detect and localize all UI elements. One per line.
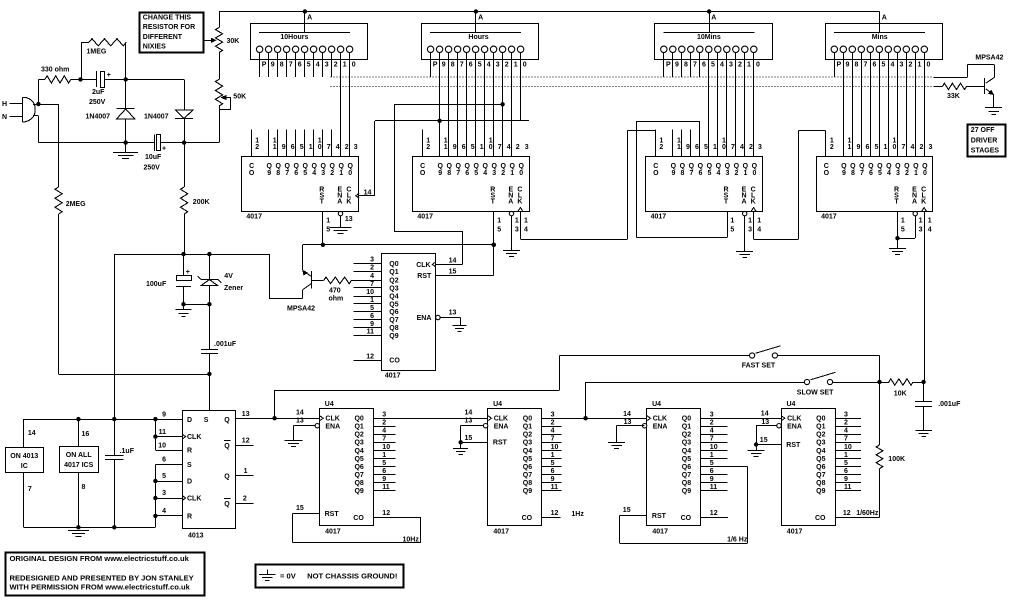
- svg-text:N: N: [2, 114, 7, 121]
- svg-text:8: 8: [280, 61, 284, 68]
- wire from plug upper pin to node: [33, 104, 59, 106]
- ground (Mins RST/ENA): [897, 238, 899, 248]
- svg-text:Q3: Q3: [682, 440, 691, 447]
- Hours pin 7: [454, 46, 460, 52]
- svg-text:13: 13: [465, 418, 473, 425]
- svg-text:1: 1: [747, 61, 751, 68]
- 4017 Mins RST pin 15 wire: [897, 211, 899, 238]
- svg-text:14: 14: [623, 411, 631, 418]
- svg-text:K: K: [346, 198, 351, 205]
- svg-text:CLK: CLK: [653, 416, 667, 423]
- svg-text:5: 5: [710, 460, 714, 467]
- resistor 10K: [833, 382, 889, 384]
- svg-text:6: 6: [698, 170, 702, 177]
- svg-text:Q7: Q7: [523, 472, 532, 479]
- svg-text:5: 5: [730, 226, 734, 233]
- svg-text:4017: 4017: [246, 214, 262, 221]
- svg-text:Q8: Q8: [523, 480, 532, 487]
- svg-text:U4: U4: [493, 401, 502, 408]
- Mins pin 9: [840, 46, 846, 52]
- svg-text:5: 5: [382, 460, 386, 467]
- svg-text:2: 2: [905, 170, 909, 177]
- arrow from box to 30K: [203, 40, 211, 42]
- switch SLOW SET: [804, 379, 809, 384]
- svg-text:7: 7: [710, 436, 714, 443]
- svg-text:4013: 4013: [188, 532, 204, 539]
- svg-text:1N4007: 1N4007: [86, 114, 111, 121]
- svg-text:5: 5: [474, 170, 478, 177]
- counter 4017 (Hours) box: [413, 157, 530, 212]
- svg-text:CO: CO: [522, 515, 533, 522]
- svg-text:4: 4: [336, 144, 340, 151]
- svg-text:Q3: Q3: [816, 440, 825, 447]
- svg-text:9: 9: [382, 476, 386, 483]
- resistor 2MEG: [58, 104, 60, 187]
- svg-text:5: 5: [711, 61, 715, 68]
- svg-text:4: 4: [740, 144, 744, 151]
- 4013 Qbar pin 12 stub: [235, 445, 253, 447]
- svg-text:CO: CO: [681, 515, 692, 522]
- svg-text:8: 8: [447, 170, 451, 177]
- svg-text:10: 10: [382, 444, 390, 451]
- counter 4017 (mains divider) box: [382, 254, 436, 371]
- svg-text:5: 5: [844, 460, 848, 467]
- svg-text:5: 5: [878, 170, 882, 177]
- svg-text:3: 3: [725, 170, 729, 177]
- svg-text:Q4: Q4: [682, 448, 691, 455]
- svg-text:4017: 4017: [652, 529, 668, 536]
- 10Mins pin 7: [688, 46, 694, 52]
- svg-text:Q1: Q1: [682, 424, 691, 431]
- svg-text:6: 6: [710, 468, 714, 475]
- svg-text:0: 0: [348, 170, 352, 177]
- svg-text:10Mins: 10Mins: [697, 34, 721, 41]
- 4017 Hours CO pin 12 stub: [422, 130, 424, 157]
- svg-text:4: 4: [710, 428, 714, 435]
- svg-text:33K: 33K: [947, 93, 960, 100]
- resistor 1MEG: [81, 42, 83, 79]
- svg-text:RST: RST: [325, 511, 340, 518]
- 4017 10Hours Q2 stub: [331, 130, 333, 157]
- svg-text:1: 1: [480, 144, 484, 151]
- svg-text:ON 4013: ON 4013: [10, 453, 38, 460]
- nixie connector Hours box: [422, 24, 539, 60]
- anode wire A of 10Mins: [709, 12, 711, 33]
- svg-text:O: O: [824, 170, 830, 177]
- svg-text:Q3: Q3: [389, 285, 398, 292]
- Mins pin 6: [867, 46, 873, 52]
- svg-text:O: O: [653, 170, 659, 177]
- 4017 10Hours CLK pin 14 wedge: [356, 193, 359, 198]
- ground (.001uF): [923, 407, 925, 431]
- box design credits: [6, 553, 205, 596]
- cathode bus dotted line lower: [331, 85, 934, 87]
- Mins pin 5: [876, 46, 882, 52]
- 10Hours pin 8: [274, 46, 280, 52]
- svg-text:CLK: CLK: [187, 434, 201, 441]
- svg-text:9: 9: [271, 61, 275, 68]
- svg-text:9: 9: [551, 476, 555, 483]
- Mins pin 7: [858, 46, 864, 52]
- svg-text:15: 15: [296, 505, 304, 512]
- svg-text:Q9: Q9: [816, 488, 825, 495]
- svg-text:Q4: Q4: [389, 293, 398, 300]
- ground symbol in note: [267, 569, 269, 574]
- svg-text:4017 ICS: 4017 ICS: [64, 462, 94, 469]
- svg-text:P: P: [262, 61, 267, 68]
- U4#2 CO stub (1Hz): [542, 517, 561, 519]
- svg-text:A: A: [478, 15, 483, 22]
- central 4017 Q8 pin 9 wire: [354, 327, 382, 329]
- svg-text:4017: 4017: [821, 214, 837, 221]
- svg-text:0: 0: [893, 144, 897, 151]
- svg-text:Q9: Q9: [389, 333, 398, 340]
- central 4017 Q3 pin 7 wire: [354, 287, 382, 289]
- svg-text:T: T: [894, 198, 899, 205]
- 4017 Mins CLK pin 14 wedge and wire down to divider chain: [922, 208, 927, 212]
- svg-text:ORIGINAL DESIGN FROM www.elect: ORIGINAL DESIGN FROM www.electricstuff.c…: [10, 554, 190, 563]
- svg-text:7: 7: [28, 486, 32, 493]
- svg-text:11: 11: [844, 484, 852, 491]
- svg-text:10uF: 10uF: [145, 154, 162, 161]
- svg-text:1: 1: [343, 61, 347, 68]
- svg-text:0: 0: [923, 170, 927, 177]
- svg-text:RST: RST: [493, 440, 508, 447]
- svg-text:6: 6: [462, 144, 466, 151]
- U4#4 CO wire to 100K (1/60Hz): [835, 517, 879, 519]
- svg-text:4: 4: [716, 170, 720, 177]
- svg-text:CLK: CLK: [494, 416, 508, 423]
- svg-text:7: 7: [689, 170, 693, 177]
- 4017 Hours Q9 stub from clock wire: [439, 121, 441, 157]
- svg-text:A: A: [741, 198, 746, 205]
- central 4017 CO pin 12 stub: [354, 360, 382, 362]
- svg-text:Q0: Q0: [682, 416, 691, 423]
- svg-text:9: 9: [846, 61, 850, 68]
- svg-text:2: 2: [551, 420, 555, 427]
- switch FAST SET: [750, 353, 755, 358]
- 10Mins pin 2: [733, 46, 739, 52]
- central 4017 Q7 pin 6 wire: [354, 319, 382, 321]
- U4#1 Q0 wire to U4#2 CLK: [374, 418, 488, 420]
- svg-text:Zener: Zener: [224, 285, 243, 292]
- wire zener node rail: [114, 254, 269, 256]
- svg-text:6: 6: [866, 144, 870, 151]
- 4017 10Hours Q6 stub: [295, 130, 297, 157]
- U4#1 ENA to ground: [294, 425, 316, 427]
- svg-text:8: 8: [680, 170, 684, 177]
- 4017 Hours CLK pin 14 wedge and cascade wire from 10Mins CO: [518, 208, 523, 212]
- 10Hours pin 4: [310, 46, 316, 52]
- svg-text:5: 5: [478, 61, 482, 68]
- 4017 Hours ENA pin 13 bubble+ground: [509, 211, 513, 215]
- svg-text:3: 3: [729, 61, 733, 68]
- svg-text:Q2: Q2: [816, 432, 825, 439]
- svg-text:Q: Q: [224, 501, 230, 508]
- svg-text:4: 4: [757, 226, 761, 233]
- nixie connector 10Hours box: [251, 24, 368, 60]
- svg-text:12: 12: [843, 510, 851, 517]
- svg-text:2MEG: 2MEG: [66, 201, 86, 208]
- 4013 Qbar pin 2 stub: [235, 503, 253, 505]
- box 27 OFF DRIVER STAGES: [968, 125, 1006, 157]
- svg-text:14: 14: [761, 411, 769, 418]
- 10Hours pin 6: [292, 46, 298, 52]
- svg-text:27 OFF: 27 OFF: [971, 127, 995, 134]
- svg-text:CLK: CLK: [187, 496, 201, 503]
- svg-text:0: 0: [927, 61, 931, 68]
- counter 4017 (10Mins) box: [646, 157, 763, 212]
- svg-text:1: 1: [757, 218, 761, 225]
- capacitor 10uF 250V: [154, 135, 156, 151]
- 10Mins pin 8: [679, 46, 685, 52]
- svg-text:5: 5: [307, 61, 311, 68]
- U4#1 Q stubs: [374, 426, 396, 428]
- svg-text:4: 4: [162, 508, 166, 515]
- svg-text:3: 3: [900, 61, 904, 68]
- svg-text:2: 2: [334, 61, 338, 68]
- svg-text:4: 4: [887, 170, 891, 177]
- svg-text:9: 9: [453, 144, 457, 151]
- svg-text:3: 3: [748, 226, 752, 233]
- diode 1N4007 (left): [125, 79, 127, 109]
- svg-text:2: 2: [710, 420, 714, 427]
- svg-text:Q: Q: [224, 417, 230, 424]
- svg-text:1: 1: [524, 218, 528, 225]
- svg-text:100uF: 100uF: [146, 281, 167, 288]
- svg-text:Q6: Q6: [816, 464, 825, 471]
- svg-text:Q: Q: [224, 443, 230, 450]
- svg-text:14: 14: [465, 410, 473, 417]
- svg-text:9: 9: [710, 476, 714, 483]
- svg-text:8: 8: [684, 61, 688, 68]
- svg-text:A: A: [882, 15, 887, 22]
- svg-text:14: 14: [296, 410, 304, 417]
- svg-text:3: 3: [929, 144, 933, 151]
- svg-text:2: 2: [382, 420, 386, 427]
- 10Mins pin 9: [670, 46, 676, 52]
- svg-text:+: +: [162, 146, 166, 153]
- 10Hours pin P: [256, 46, 262, 52]
- logic 0V rail (bottom): [24, 527, 155, 529]
- svg-text:7: 7: [327, 144, 331, 151]
- svg-text:12: 12: [366, 353, 374, 360]
- svg-text:Q9: Q9: [523, 488, 532, 495]
- U4#4 Q stubs: [835, 418, 861, 420]
- svg-text:Q1: Q1: [389, 269, 398, 276]
- svg-text:5: 5: [882, 61, 886, 68]
- svg-text:7: 7: [551, 436, 555, 443]
- svg-text:Q: Q: [224, 473, 230, 480]
- svg-text:Q6: Q6: [389, 309, 398, 316]
- 10Hours pin 9: [265, 46, 271, 52]
- svg-text:Q7: Q7: [816, 472, 825, 479]
- svg-text:7: 7: [285, 170, 289, 177]
- wire 2MEG down to 0V rail mid: [58, 214, 60, 374]
- svg-text:7: 7: [731, 144, 735, 151]
- svg-text:5: 5: [707, 170, 711, 177]
- svg-text:ENA: ENA: [325, 423, 340, 430]
- svg-text:2: 2: [920, 144, 924, 151]
- 4017 10Mins Q7 stub: [690, 130, 692, 157]
- svg-text:1: 1: [382, 452, 386, 459]
- svg-text:5: 5: [497, 226, 501, 233]
- svg-text:Q8: Q8: [816, 480, 825, 487]
- Mins pin 0: [921, 46, 927, 52]
- 10Hours pin 3: [319, 46, 325, 52]
- svg-text:4017: 4017: [787, 529, 803, 536]
- svg-text:6: 6: [873, 61, 877, 68]
- svg-text:Q1: Q1: [354, 424, 363, 431]
- Mins pin 3: [894, 46, 900, 52]
- svg-text:= 0V: = 0V: [280, 571, 297, 580]
- counter 4017 (Mins) box: [817, 157, 933, 212]
- U4#1 CO to RST loop (10Hz): [374, 517, 421, 519]
- flip-flop 4013 box: [183, 411, 236, 529]
- svg-text:+: +: [107, 72, 111, 79]
- svg-text:Hours: Hours: [468, 34, 488, 41]
- svg-text:1: 1: [273, 144, 277, 151]
- capacitor .1uF decoupling: [114, 419, 116, 455]
- svg-text:4: 4: [551, 428, 555, 435]
- svg-text:Q0: Q0: [816, 416, 825, 423]
- divider 4017 U4 #1 box: [320, 409, 374, 526]
- svg-text:13: 13: [296, 418, 304, 425]
- box ON ALL 4017 ICS with pins 16/8: [78, 419, 80, 446]
- svg-text:12: 12: [382, 510, 390, 517]
- resistor 200K: [184, 143, 186, 187]
- svg-text:1: 1: [914, 170, 918, 177]
- svg-text:50K: 50K: [233, 93, 246, 100]
- svg-text:Q1: Q1: [523, 424, 532, 431]
- 10Mins pin 0: [751, 46, 757, 52]
- svg-text:0: 0: [722, 144, 726, 151]
- svg-text:CLK: CLK: [416, 262, 430, 269]
- Hours pin 5: [472, 46, 478, 52]
- svg-text:MPSA42: MPSA42: [975, 54, 1003, 61]
- U4#3 CO stub: [701, 517, 728, 519]
- svg-text:2uF: 2uF: [92, 89, 105, 96]
- potentiometer 50K: [215, 79, 222, 106]
- svg-text:9: 9: [844, 476, 848, 483]
- svg-text:100K: 100K: [888, 456, 905, 463]
- svg-text:14: 14: [449, 257, 457, 264]
- svg-text:1: 1: [551, 452, 555, 459]
- svg-text:5: 5: [162, 473, 166, 480]
- svg-text:1N4007: 1N4007: [144, 114, 169, 121]
- svg-text:3: 3: [710, 412, 714, 419]
- svg-text:2: 2: [830, 144, 834, 151]
- svg-text:T: T: [491, 198, 496, 205]
- Hours pin 0: [517, 46, 523, 52]
- svg-text:4: 4: [524, 226, 528, 233]
- svg-text:1: 1: [918, 61, 922, 68]
- svg-text:1/6 Hz: 1/6 Hz: [727, 537, 748, 544]
- svg-text:9: 9: [671, 170, 675, 177]
- box CHANGE THIS RESISTOR FOR DIFFERENT NIXIES: [140, 13, 204, 53]
- counter 4017 (10Hours) box: [242, 157, 359, 212]
- 10Mins pin 3: [724, 46, 730, 52]
- svg-text:.1uF: .1uF: [120, 448, 135, 455]
- svg-text:4017: 4017: [417, 214, 433, 221]
- svg-text:0: 0: [519, 170, 523, 177]
- svg-text:4: 4: [370, 273, 374, 280]
- U4#2 Q stubs: [542, 426, 562, 428]
- svg-text:Q6: Q6: [523, 464, 532, 471]
- svg-text:1: 1: [510, 170, 514, 177]
- U4#2 Q0 wire to U4#3 CLK: [542, 418, 647, 420]
- svg-text:11: 11: [367, 329, 375, 336]
- cathode bus dotted line upper: [331, 76, 934, 78]
- resistor 30K: [219, 12, 221, 28]
- wire FAST SET right to 10K node: [778, 355, 880, 357]
- svg-text:P: P: [666, 61, 671, 68]
- U4#3 Q0 wire to U4#4 CLK: [701, 418, 781, 420]
- svg-text:10Hours: 10Hours: [280, 34, 308, 41]
- svg-text:2: 2: [844, 420, 848, 427]
- svg-text:Q4: Q4: [523, 448, 532, 455]
- U4#4 ENA+RST to ground: [756, 425, 777, 427]
- svg-text:ohm: ohm: [329, 296, 344, 303]
- svg-text:U4: U4: [787, 401, 796, 408]
- svg-text:12: 12: [551, 510, 559, 517]
- svg-text:RST: RST: [786, 442, 801, 449]
- svg-text:Q8: Q8: [354, 480, 363, 487]
- svg-text:3: 3: [551, 412, 555, 419]
- 10Mins pin 6: [697, 46, 703, 52]
- svg-text:200K: 200K: [193, 199, 210, 206]
- svg-text:P: P: [433, 61, 438, 68]
- wire node up to 330 ohm: [38, 79, 40, 104]
- svg-text:4: 4: [844, 428, 848, 435]
- svg-text:6: 6: [298, 61, 302, 68]
- svg-text:0: 0: [752, 170, 756, 177]
- 10Hours pin 2: [328, 46, 334, 52]
- svg-text:5: 5: [551, 460, 555, 467]
- resistor 470 ohm: [311, 280, 323, 282]
- svg-text:RST: RST: [417, 273, 432, 280]
- svg-text:8: 8: [855, 61, 859, 68]
- svg-text:0: 0: [756, 61, 760, 68]
- svg-text:S: S: [204, 417, 209, 424]
- svg-text:Q2: Q2: [682, 432, 691, 439]
- 4017 10Hours CO pin 12 stub: [251, 130, 253, 157]
- svg-text:ENA: ENA: [417, 315, 432, 322]
- svg-text:1: 1: [713, 144, 717, 151]
- capacitor 2uF 250V: [81, 79, 97, 81]
- svg-text:5: 5: [303, 170, 307, 177]
- svg-text:Q0: Q0: [354, 416, 363, 423]
- svg-text:1: 1: [884, 144, 888, 151]
- wire FAST SET to U4#1 clock: [274, 390, 276, 418]
- svg-text:REDESIGNED AND PRESENTED BY JO: REDESIGNED AND PRESENTED BY JON STANLEY: [10, 574, 194, 583]
- svg-text:11: 11: [710, 484, 718, 491]
- Hours pin 8: [445, 46, 451, 52]
- svg-text:Q5: Q5: [389, 301, 398, 308]
- svg-text:6: 6: [844, 468, 848, 475]
- svg-text:6: 6: [382, 468, 386, 475]
- svg-text:P: P: [837, 61, 842, 68]
- svg-text:7: 7: [902, 144, 906, 151]
- svg-text:D: D: [187, 479, 192, 486]
- svg-text:7: 7: [693, 61, 697, 68]
- svg-text:9: 9: [267, 170, 271, 177]
- anode supply bus wire (top): [219, 11, 880, 13]
- svg-text:3: 3: [162, 490, 166, 497]
- Hours pin 2: [499, 46, 505, 52]
- 0V rail top-left: [38, 142, 154, 144]
- central 4017 Q4 pin 10 wire: [354, 296, 382, 298]
